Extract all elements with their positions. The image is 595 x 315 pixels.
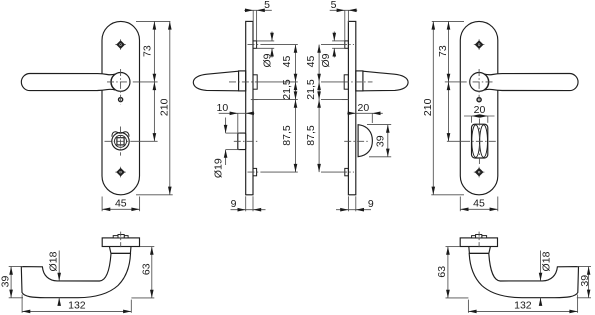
extension lines chain (right profile) — [321, 45, 348, 173]
dimension Ø9 (left profile) — [257, 32, 275, 68]
svg-text:Ø9: Ø9 — [262, 53, 274, 67]
svg-text:39: 39 — [0, 276, 11, 288]
dimension 210 (right front view) — [422, 21, 435, 194]
svg-text:63: 63 — [140, 263, 152, 275]
WC release knob in profile (left) — [238, 133, 246, 150]
svg-text:5: 5 — [331, 0, 337, 11]
neck collar (bottom left view) — [109, 247, 131, 254]
hub bushing (right profile) — [344, 75, 348, 89]
hub centerlines (right front view) — [460, 69, 493, 104]
bottom screw (left front view) — [115, 171, 126, 173]
svg-text:87,5: 87,5 — [281, 125, 293, 146]
dimension 132 (bottom left view) — [22, 295, 131, 314]
svg-text:20: 20 — [474, 104, 486, 116]
svg-text:Ø18: Ø18 — [47, 251, 59, 271]
dimension 45 (right profile) — [305, 45, 321, 173]
svg-text:45: 45 — [115, 198, 127, 210]
handle hub rose (left front view) — [111, 73, 130, 92]
spindle centerline (bottom left view) — [120, 232, 122, 249]
bottom screw bushing (left profile) — [253, 168, 257, 175]
svg-text:Ø18: Ø18 — [540, 251, 552, 271]
dimension 10 (left profile) — [217, 102, 255, 133]
svg-text:21,5: 21,5 — [281, 79, 293, 100]
dimension Ø19 (left profile) — [213, 118, 240, 179]
extension lines (right front view) — [431, 21, 464, 194]
handle top view (bottom left) — [21, 253, 130, 297]
dimension 87,5 (right profile) — [305, 100, 321, 173]
svg-text:39: 39 — [579, 275, 591, 287]
dimension 20 (right front view) — [464, 104, 495, 123]
svg-text:Ø19: Ø19 — [213, 158, 225, 178]
dimension 63 (bottom left view) — [131, 247, 154, 298]
dimension 21,5 (left profile) — [281, 79, 297, 100]
small fixing hole below hub (left) — [119, 98, 123, 102]
svg-text:87,5: 87,5 — [305, 125, 317, 146]
svg-text:63: 63 — [436, 266, 448, 278]
spindle (bottom left view) — [113, 235, 128, 238]
top screw bushing (right profile) — [345, 41, 349, 48]
centerlines (left profile view) — [229, 45, 262, 173]
dimension Ø18 (bottom left view) — [47, 251, 61, 306]
spindle centerline (bottom right view) — [478, 232, 480, 249]
dimension Ø9 (right profile) — [320, 32, 345, 68]
dimension 45 (left front view) — [102, 197, 140, 212]
handle grip (left front view) — [21, 74, 115, 91]
dimension 5 (left profile) — [244, 0, 271, 41]
dimension 73 (right front view) — [437, 21, 450, 141]
dimension 39 (bottom left view) — [0, 267, 23, 298]
dimension 5 (right profile) — [330, 0, 358, 41]
svg-text:9: 9 — [231, 198, 237, 210]
dimension 20 (right profile) — [347, 102, 383, 123]
spindle (bottom right view) — [472, 235, 487, 238]
dimension 21,5 (right profile) — [305, 79, 321, 100]
top screw (right front view) — [474, 44, 485, 46]
hub bushing (left profile) — [253, 75, 257, 89]
backplate edge (bottom left view) — [102, 238, 139, 247]
small fixing hole below hub (right) — [477, 98, 481, 102]
svg-text:210: 210 — [158, 98, 170, 116]
svg-text:45: 45 — [281, 56, 293, 68]
WC rose centerlines (left front view) — [105, 127, 137, 156]
svg-text:20: 20 — [358, 102, 370, 114]
extension lines (left front view) — [136, 21, 173, 194]
handle grip (right front view) — [484, 74, 578, 91]
backplate (left front view) — [102, 21, 140, 194]
svg-text:132: 132 — [514, 299, 532, 311]
neck collar (bottom right view) — [469, 247, 491, 254]
dimension 9 (left profile) — [231, 196, 266, 211]
backplate in profile (left profile view) — [246, 21, 253, 194]
handle hub rose (right front view) — [470, 73, 489, 92]
dimension Ø18 (bottom right view) — [539, 251, 553, 306]
dimension 9 (right profile) — [336, 196, 374, 211]
svg-text:132: 132 — [68, 299, 86, 311]
svg-text:45: 45 — [305, 56, 317, 68]
top screw (left front view) — [115, 44, 126, 46]
backplate (right front view) — [460, 21, 498, 194]
extension lines chain (left profile) — [254, 45, 298, 173]
dimension 45 (left profile) — [281, 45, 297, 173]
handle in profile (left profile view) — [193, 71, 245, 91]
svg-text:9: 9 — [368, 198, 374, 210]
handle in profile (right profile view) — [356, 71, 408, 91]
svg-text:45: 45 — [473, 198, 485, 210]
dimension 73 (left front view) — [142, 21, 157, 141]
dimension 87,5 (left profile) — [281, 100, 297, 173]
svg-text:73: 73 — [142, 45, 154, 57]
dimension 210 (left front view) — [158, 21, 171, 194]
dimension 132 (bottom right view) — [468, 295, 577, 314]
WC thumbturn wing in profile (right) — [358, 125, 372, 157]
bottom screw (right front view) — [474, 171, 485, 173]
dimension 39 (bottom right view) — [577, 267, 591, 298]
bottom screw bushing (right profile) — [345, 168, 349, 175]
hub centerlines (left front view) — [107, 69, 140, 104]
top screw bushing (left profile) — [253, 41, 257, 48]
svg-text:73: 73 — [437, 45, 449, 57]
svg-text:5: 5 — [264, 0, 270, 11]
svg-text:210: 210 — [422, 98, 434, 116]
centerlines (right profile view) — [340, 45, 373, 173]
svg-text:10: 10 — [217, 102, 229, 114]
thumbturn centerlines (right front view) — [463, 119, 497, 165]
svg-text:39: 39 — [374, 135, 386, 147]
svg-text:Ø9: Ø9 — [320, 53, 332, 67]
dimension 63 (bottom right view) — [436, 247, 469, 298]
backplate in profile (right profile view) — [348, 21, 355, 194]
WC emergency release rose (left front view) — [112, 132, 129, 150]
WC thumbturn (right front view) — [472, 124, 488, 158]
dimension 45 (right front view) — [460, 197, 498, 212]
svg-text:21,5: 21,5 — [305, 79, 317, 100]
handle top view (bottom right) — [469, 253, 578, 297]
dimension 39 (right profile) — [367, 125, 391, 157]
backplate edge (bottom right view) — [460, 238, 497, 247]
